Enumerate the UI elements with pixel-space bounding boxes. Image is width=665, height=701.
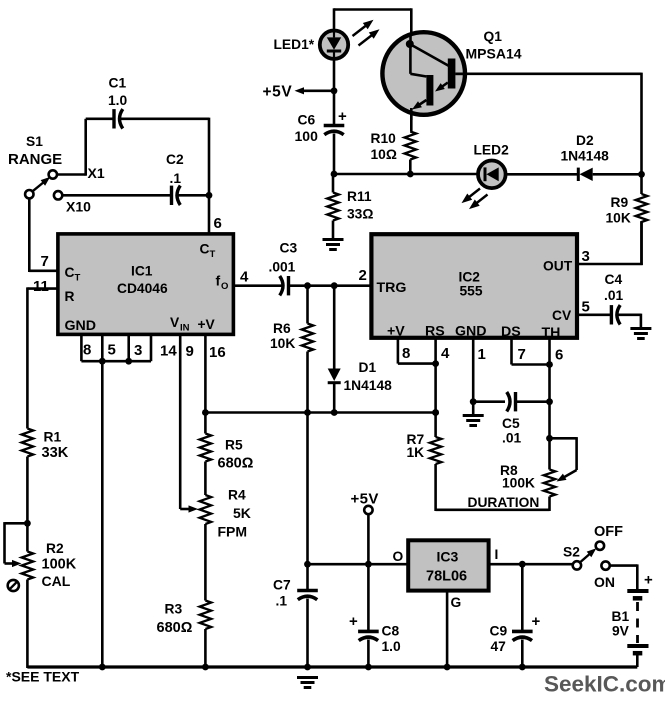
label SeekIC.com watermark xyxy=(544,672,665,697)
wire pin4 RS column xyxy=(432,338,439,437)
ground below R11 xyxy=(323,240,344,250)
label pin3 xyxy=(134,342,142,359)
svg-text:R9: R9 xyxy=(611,195,629,210)
wire X1 to C1 xyxy=(57,119,86,176)
svg-text:OUT: OUT xyxy=(543,259,573,274)
label X1 xyxy=(88,165,105,181)
svg-text:SeekIC.com: SeekIC.com xyxy=(544,672,665,697)
capacitor C1 xyxy=(86,109,209,128)
label C7 .1 xyxy=(273,578,291,609)
svg-text:RANGE: RANGE xyxy=(8,151,62,168)
svg-text:IC2: IC2 xyxy=(459,270,481,285)
svg-text:33K: 33K xyxy=(42,445,69,461)
svg-text:10K: 10K xyxy=(606,211,631,226)
label IC2 pin3 xyxy=(582,248,590,265)
potentiometer R2 100K CAL xyxy=(22,523,34,668)
label IC2 pin1 xyxy=(478,346,486,363)
label IC1 R pin xyxy=(65,289,75,304)
svg-text:1K: 1K xyxy=(407,445,425,460)
label IC2 pin5 xyxy=(582,299,590,316)
label pin11 xyxy=(33,278,49,295)
label S2 xyxy=(563,545,580,560)
label R4 5K FPM xyxy=(218,488,251,540)
label IC2 555 xyxy=(459,270,483,299)
potentiometer R4 5K FPM xyxy=(200,495,212,601)
svg-text:R6: R6 xyxy=(273,321,291,336)
label C4 .01 xyxy=(604,272,624,303)
svg-text:5K: 5K xyxy=(233,505,251,521)
wire pin3 OUT xyxy=(577,221,643,265)
svg-text:IC3: IC3 xyxy=(437,549,459,565)
svg-text:LED2: LED2 xyxy=(474,143,510,158)
label IC1 CD4046 xyxy=(117,264,168,297)
svg-text:V: V xyxy=(170,315,180,330)
label R10 10ohm xyxy=(371,131,397,162)
label IC1 CT left pin xyxy=(65,265,81,284)
switch S2 pole contact xyxy=(573,561,581,569)
svg-text:47: 47 xyxy=(491,639,507,654)
LED1 indicator LED xyxy=(320,20,380,59)
label C1 1.0 xyxy=(108,76,128,109)
svg-text:X1: X1 xyxy=(88,165,105,181)
label IC2 TH pin xyxy=(542,325,561,341)
wire R8 wiper xyxy=(546,435,577,482)
wire pin9 to R4 wiper xyxy=(180,334,198,512)
label pin5 xyxy=(108,342,116,359)
svg-text:*SEE TEXT: *SEE TEXT xyxy=(6,669,80,685)
svg-text:100K: 100K xyxy=(502,476,535,491)
svg-text:R3: R3 xyxy=(165,602,183,617)
label SEE TEXT note xyxy=(6,669,80,685)
label OFF xyxy=(594,524,623,540)
svg-text:10K: 10K xyxy=(270,336,295,351)
svg-text:4: 4 xyxy=(240,269,249,286)
svg-text:O: O xyxy=(393,549,404,564)
svg-text:ON: ON xyxy=(594,574,615,590)
label R2 100K CAL xyxy=(42,541,77,589)
wire S1 pole to pin7 xyxy=(29,198,58,272)
resistor R10 xyxy=(405,115,417,177)
svg-text:T: T xyxy=(75,273,81,284)
wire IC3 G to rail xyxy=(444,591,451,671)
svg-text:GND: GND xyxy=(455,324,487,340)
svg-text:4: 4 xyxy=(441,345,450,362)
label D1 1N4148 xyxy=(344,360,393,393)
wire C6 to junction xyxy=(331,134,338,178)
svg-text:X10: X10 xyxy=(66,199,91,215)
svg-text:C7: C7 xyxy=(273,578,291,593)
wire R2 wiper bracket xyxy=(5,522,28,567)
label pin6 xyxy=(214,215,222,232)
diode D2 1N4148 xyxy=(578,168,645,181)
label +5V top xyxy=(263,84,293,101)
label R6 10K xyxy=(270,321,295,351)
label IC1 VIN pin xyxy=(170,315,190,334)
switch S2 OFF contact xyxy=(596,542,604,550)
label C3 .001 xyxy=(269,241,298,275)
label R8 100K DURATION xyxy=(468,463,540,510)
svg-text:T: T xyxy=(210,249,216,260)
capacitor C3 xyxy=(280,276,372,295)
svg-text:+V: +V xyxy=(198,317,216,332)
svg-text:LED1*: LED1* xyxy=(274,37,315,52)
svg-text:5: 5 xyxy=(582,299,590,316)
label IC2 pin7 xyxy=(518,346,526,363)
wire pin6 TH column xyxy=(548,338,551,440)
wire pin11 to R1 column xyxy=(27,287,58,428)
svg-text:RS: RS xyxy=(425,324,445,340)
svg-text:.1: .1 xyxy=(276,594,288,609)
label C8 1.0 xyxy=(382,624,402,655)
svg-text:5: 5 xyxy=(108,342,116,359)
svg-text:B1: B1 xyxy=(612,609,630,624)
capacitor C6 xyxy=(324,108,347,135)
resistor R5 xyxy=(200,434,212,496)
label C6 100 xyxy=(295,113,319,145)
label IC2 +V pin xyxy=(387,324,405,340)
svg-text:+5V: +5V xyxy=(263,84,293,101)
label C5 .01 xyxy=(502,416,522,446)
label C2 .1 xyxy=(166,152,184,186)
wire pin7 bridge xyxy=(512,338,553,368)
svg-text:9V: 9V xyxy=(612,624,630,639)
wire IC3 input to S2 xyxy=(489,561,573,568)
svg-text:C5: C5 xyxy=(502,416,520,431)
label pin16 xyxy=(209,344,226,361)
svg-text:TH: TH xyxy=(542,325,561,341)
svg-text:G: G xyxy=(451,595,462,610)
label IC2 OUT pin xyxy=(543,259,573,274)
wire +V rail xyxy=(205,409,439,416)
svg-text:14: 14 xyxy=(160,343,177,360)
svg-text:OFF: OFF xyxy=(594,524,623,540)
label pin2 xyxy=(359,267,367,284)
svg-text:1.0: 1.0 xyxy=(108,93,128,108)
regulator IC3 78L06 body xyxy=(408,540,488,590)
label R5 680ohm xyxy=(218,438,254,472)
resistor R7 xyxy=(430,437,442,511)
label LED1* xyxy=(274,37,315,52)
op-amp U1 IC1 CD4046 body xyxy=(58,234,234,335)
resistor R6 xyxy=(302,286,314,414)
svg-text:CD4046: CD4046 xyxy=(117,281,168,296)
svg-text:IN: IN xyxy=(180,323,190,334)
node R1 R2 junction xyxy=(24,520,31,527)
svg-text:.01: .01 xyxy=(502,431,522,446)
wire R7 R8 loop xyxy=(436,497,550,512)
label IC1 +V pin xyxy=(198,317,216,332)
svg-text:C6: C6 xyxy=(298,113,316,128)
label R7 1K xyxy=(407,432,425,460)
svg-text:R1: R1 xyxy=(44,430,62,445)
svg-text:680Ω: 680Ω xyxy=(218,456,254,472)
ground below C7 on rail xyxy=(297,678,318,688)
svg-text:9: 9 xyxy=(186,343,194,360)
LED2 indicator LED xyxy=(462,161,506,210)
label S1 RANGE xyxy=(8,134,62,168)
ground below pin1 xyxy=(463,416,484,426)
svg-text:C1: C1 xyxy=(109,76,127,91)
svg-text:3: 3 xyxy=(134,342,142,359)
+5V output terminal xyxy=(364,506,372,564)
wire IC3 output rail xyxy=(304,561,408,568)
svg-text:R4: R4 xyxy=(228,488,246,503)
wire pin16 to +V rail xyxy=(202,334,209,433)
wire LED1 to +5V node xyxy=(333,57,336,125)
resistor R9 xyxy=(636,174,648,265)
svg-text:CAL: CAL xyxy=(42,573,71,589)
svg-text:CV: CV xyxy=(552,308,572,323)
label IC2 CV pin xyxy=(552,308,572,323)
switch S1 X1 contact xyxy=(49,170,57,178)
wire IC1 ground pins 8-5-3-14 bracket xyxy=(81,334,151,364)
label IC3 O pin xyxy=(393,549,404,564)
label IC2 TRG pin xyxy=(377,280,407,296)
resistor R1 xyxy=(22,429,34,525)
svg-text:8: 8 xyxy=(402,345,410,362)
svg-text:8: 8 xyxy=(83,342,91,359)
label IC2 RS pin xyxy=(425,324,445,340)
svg-text:100K: 100K xyxy=(42,557,77,573)
svg-text:7: 7 xyxy=(41,253,49,270)
svg-text:16: 16 xyxy=(209,344,226,361)
svg-text:7: 7 xyxy=(518,346,526,363)
svg-text:C9: C9 xyxy=(490,624,508,639)
op-amp U2 IC2 555 body xyxy=(371,234,577,338)
label pin4 xyxy=(240,269,249,286)
wire emitter node to LED2 xyxy=(333,173,478,176)
svg-text:GND: GND xyxy=(65,318,97,334)
wire Q1 base to R9 column xyxy=(455,73,641,175)
label X10 xyxy=(66,199,91,215)
label IC2 pin8 xyxy=(402,345,410,362)
+5V supply arrow xyxy=(295,87,338,94)
svg-text:10Ω: 10Ω xyxy=(371,147,397,162)
label pin9 xyxy=(186,343,194,360)
svg-text:FPM: FPM xyxy=(218,524,248,540)
svg-text:IC1: IC1 xyxy=(131,264,153,279)
wire pin1 GND xyxy=(470,338,477,415)
svg-text:+: + xyxy=(338,108,347,125)
svg-text:1.0: 1.0 xyxy=(382,639,402,654)
wire LED2 to D2 xyxy=(506,173,579,176)
label IC1 fo pin xyxy=(216,273,229,293)
wire S2 to battery xyxy=(610,564,638,589)
label R1 33K xyxy=(42,430,69,462)
svg-text:C: C xyxy=(65,265,75,280)
capacitor C9 xyxy=(512,564,541,670)
svg-text:C3: C3 xyxy=(280,241,298,256)
transistor Q1 MPSA14 darlington xyxy=(382,32,466,120)
svg-text:680Ω: 680Ω xyxy=(157,620,193,636)
wire C1 to pin6 column xyxy=(206,118,213,234)
svg-text:3: 3 xyxy=(582,248,590,265)
resistor R3 xyxy=(200,601,212,671)
svg-text:MPSA14: MPSA14 xyxy=(466,46,522,62)
svg-text:+: + xyxy=(532,613,541,630)
capacitor C8 xyxy=(349,564,379,670)
label IC2 DS pin xyxy=(501,324,521,340)
switch S2 arm xyxy=(580,548,596,562)
label IC3 G pin xyxy=(451,595,462,610)
battery B1 9V xyxy=(627,572,653,668)
label C9 47 xyxy=(490,624,508,655)
svg-text:+: + xyxy=(349,613,358,630)
svg-text:.1: .1 xyxy=(170,171,182,186)
svg-text:D2: D2 xyxy=(576,133,594,148)
switch S1 arm xyxy=(33,177,51,191)
label R9 10K xyxy=(606,195,631,226)
screwdriver adjust symbol xyxy=(8,580,19,591)
label IC2 pin4 xyxy=(441,345,450,362)
svg-text:C: C xyxy=(200,242,210,257)
label R3 680ohm xyxy=(157,602,193,637)
wire top rail xyxy=(334,8,411,33)
svg-text:6: 6 xyxy=(555,347,563,364)
svg-text:I: I xyxy=(495,547,499,562)
svg-text:D1: D1 xyxy=(359,360,377,375)
svg-text:C2: C2 xyxy=(166,152,184,167)
svg-text:555: 555 xyxy=(460,284,483,299)
label IC3 78L06 xyxy=(426,549,467,585)
switch S1 X10 contact xyxy=(54,191,62,199)
potentiometer R8 100K DURATION xyxy=(544,438,556,496)
svg-text:.01: .01 xyxy=(604,288,624,303)
wire pin5 to bottom rail xyxy=(99,361,106,670)
svg-text:.001: .001 xyxy=(269,260,296,275)
svg-text:33Ω: 33Ω xyxy=(347,207,373,222)
label B1 9V xyxy=(612,609,630,639)
svg-text:+V: +V xyxy=(387,324,405,340)
svg-text:S1: S1 xyxy=(26,134,43,149)
wire pin5 CV xyxy=(577,313,612,316)
wire pin8 bridge xyxy=(398,338,439,367)
svg-text:TRG: TRG xyxy=(377,280,407,296)
svg-text:1: 1 xyxy=(478,346,486,363)
resistor R11 xyxy=(327,174,339,240)
svg-text:1N4148: 1N4148 xyxy=(561,149,610,164)
label pin14 xyxy=(160,343,177,360)
wire IC1 pin4 fo out xyxy=(233,284,283,287)
label IC2 GND pin xyxy=(455,324,487,340)
svg-text:Q1: Q1 xyxy=(484,29,503,44)
svg-text:78L06: 78L06 xyxy=(426,569,467,585)
svg-text:DS: DS xyxy=(501,324,521,340)
switch S1 pole contact xyxy=(25,190,33,198)
svg-text:S2: S2 xyxy=(563,545,580,560)
svg-text:R11: R11 xyxy=(347,189,372,204)
switch S2 ON contact xyxy=(601,561,609,569)
svg-text:f: f xyxy=(216,273,221,289)
label pin8 xyxy=(83,342,91,359)
capacitor C7 xyxy=(297,564,318,670)
svg-text:+5V: +5V xyxy=(351,491,379,508)
wire pin1 to C5 xyxy=(473,400,505,403)
capacitor C2 xyxy=(172,186,210,205)
label IC1 CT top pin xyxy=(200,242,216,261)
ground below C4 xyxy=(630,329,651,339)
label Q1 MPSA14 xyxy=(466,29,522,62)
svg-text:DURATION: DURATION xyxy=(468,495,540,510)
label IC1 GND pin xyxy=(65,318,97,334)
svg-text:R: R xyxy=(65,289,75,304)
label IC2 pin6 xyxy=(555,347,563,364)
label pin7 xyxy=(41,253,49,270)
svg-text:C4: C4 xyxy=(605,272,623,287)
label D2 1N4148 xyxy=(561,133,610,164)
label ON xyxy=(594,574,615,590)
svg-text:R10: R10 xyxy=(371,131,397,146)
capacitor C5 xyxy=(507,392,553,411)
svg-text:11: 11 xyxy=(33,278,49,295)
svg-text:1N4148: 1N4148 xyxy=(344,378,393,393)
label LED2 xyxy=(474,143,510,158)
label R11 33ohm xyxy=(347,189,373,222)
svg-text:O: O xyxy=(221,281,228,292)
svg-text:R2: R2 xyxy=(46,541,64,556)
wire X10 to C2 xyxy=(62,194,171,197)
label +5V bottom xyxy=(351,491,379,508)
wire bottom rail xyxy=(27,665,637,668)
svg-text:6: 6 xyxy=(214,215,222,232)
capacitor C4 xyxy=(611,305,641,327)
svg-text:100: 100 xyxy=(295,128,319,144)
diode D1 1N4148 xyxy=(328,286,341,414)
svg-text:+: + xyxy=(644,572,653,589)
svg-text:2: 2 xyxy=(359,267,367,284)
wire +V rail to O rail xyxy=(306,413,309,565)
label IC3 I pin xyxy=(495,547,499,562)
svg-text:C8: C8 xyxy=(382,624,400,639)
svg-text:R5: R5 xyxy=(225,438,243,453)
